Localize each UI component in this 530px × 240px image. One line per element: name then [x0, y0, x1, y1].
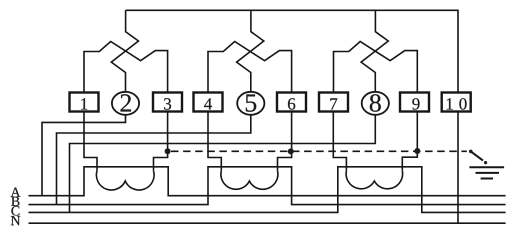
- meter element 1 current coil (terminal 1 to 3): [84, 42, 168, 93]
- digit 5: [246, 94, 256, 111]
- ground symbol: [469, 167, 504, 178]
- earth link dashed wire: [171, 150, 467, 152]
- digit 9: [412, 98, 419, 109]
- meter element 1 voltage coil (bus to terminal 2): [111, 10, 138, 91]
- digit 6: [288, 98, 295, 109]
- voltage-coil common bus (to terminal 10): [126, 10, 458, 92]
- meter element 3 current coil (terminal 7 to 9): [334, 42, 418, 93]
- label C: [11, 206, 19, 215]
- meter element 3 voltage coil (bus to terminal 8): [361, 10, 388, 91]
- CT1 secondary lead from terminal 3: [154, 112, 168, 171]
- wire: terminal 10 to neutral: [457, 112, 459, 224]
- meter element 2 current coil (terminal 4 to 6): [208, 42, 292, 93]
- terminal box 1: [70, 93, 99, 112]
- CT1 secondary winding: [96, 171, 154, 190]
- CT2 secondary lead from terminal 4: [208, 112, 221, 171]
- wire: terminal 5 to phase B tap: [57, 115, 251, 205]
- junction dot a (CT1 earth): [165, 148, 171, 154]
- neutral N line: [29, 222, 506, 224]
- digit 1 of 10: [447, 98, 453, 109]
- terminal box 10: [442, 93, 471, 112]
- terminal box 3: [153, 93, 182, 112]
- junction dot c (CT3 earth): [414, 148, 420, 154]
- terminal box 6: [277, 93, 306, 112]
- digit 0 of 10: [459, 98, 466, 109]
- digit 2: [121, 94, 131, 111]
- terminal 8 circle: [362, 92, 389, 115]
- wire: terminal 2 to phase A tap: [42, 115, 126, 196]
- label N: [11, 216, 20, 225]
- earth switch blade: [471, 151, 483, 160]
- terminal box 4: [194, 93, 223, 112]
- wire: terminal 8 to phase C tap: [70, 115, 376, 213]
- label A: [11, 188, 21, 197]
- terminal 2 circle: [112, 92, 139, 115]
- digit 1: [81, 98, 87, 109]
- terminal box 9: [400, 93, 429, 112]
- meter element 2 voltage coil (bus to terminal 5): [237, 10, 264, 91]
- CT1 secondary lead from terminal 1: [84, 112, 97, 171]
- terminal 5 circle: [237, 92, 264, 115]
- CT2 secondary lead from terminal 6: [278, 112, 292, 171]
- digit 4: [204, 98, 212, 109]
- CT3 secondary lead from terminal 9: [402, 112, 417, 171]
- CT2 secondary winding: [221, 171, 278, 189]
- label B: [11, 197, 19, 206]
- phase C line with CT3 primary: [29, 167, 506, 213]
- CT3 secondary winding: [346, 171, 402, 189]
- phase A line with CT1 primary: [29, 167, 506, 196]
- phase B line with CT2 primary: [29, 167, 506, 205]
- digit 7: [330, 98, 337, 109]
- digit 3: [164, 98, 171, 109]
- digit 8: [370, 94, 381, 112]
- terminal box 7: [319, 93, 348, 112]
- junction dot b (CT2 earth): [288, 148, 294, 154]
- CT3 secondary lead from terminal 7: [333, 112, 346, 171]
